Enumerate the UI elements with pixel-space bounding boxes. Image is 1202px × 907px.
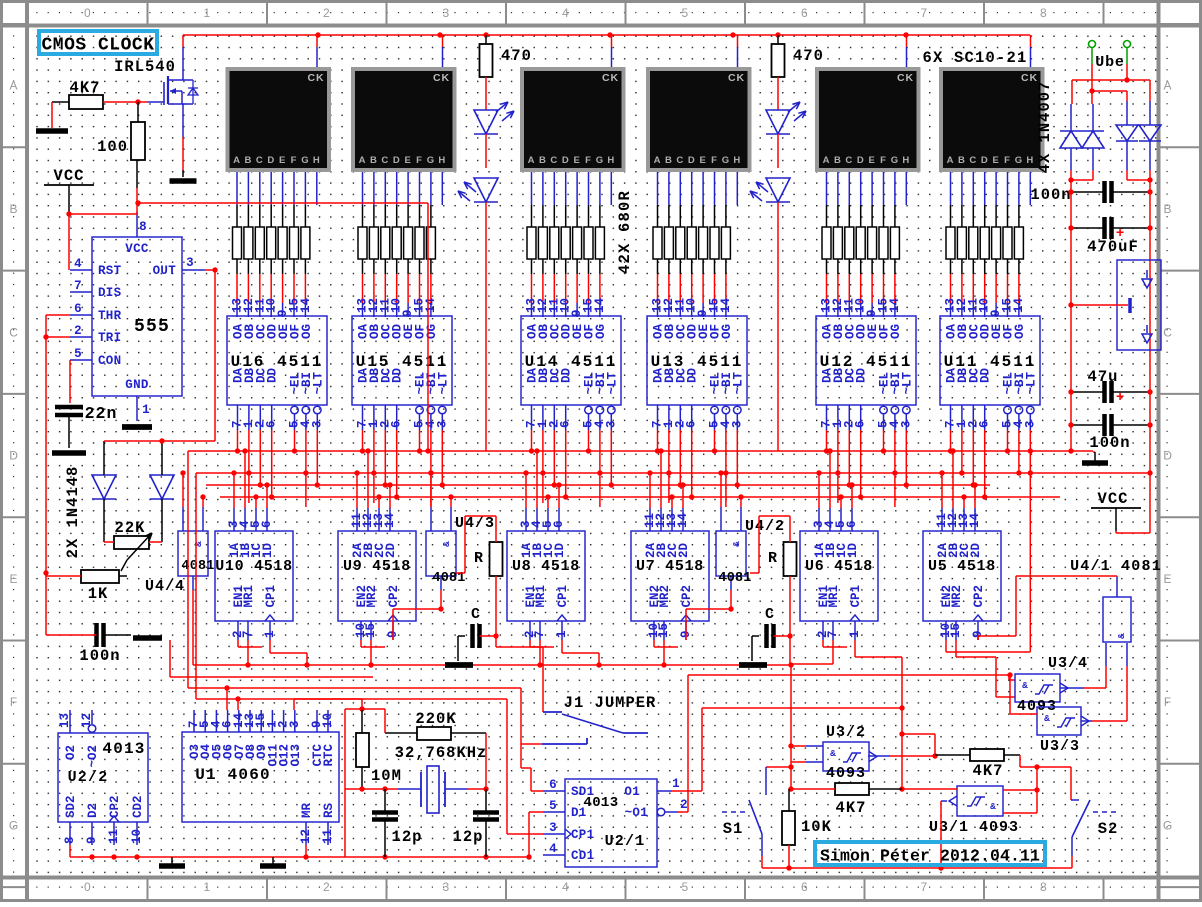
svg-text:C: C bbox=[1163, 325, 1173, 339]
svg-text:14: 14 bbox=[593, 297, 607, 313]
svg-text:CP2: CP2 bbox=[972, 585, 986, 608]
svg-text:CMOS CLOCK: CMOS CLOCK bbox=[41, 36, 154, 56]
svg-text:A: A bbox=[359, 155, 367, 166]
svg-text:4: 4 bbox=[549, 842, 557, 856]
svg-text:A: A bbox=[1164, 79, 1173, 93]
svg-text:H: H bbox=[1026, 155, 1034, 166]
svg-text:DD: DD bbox=[391, 368, 405, 384]
svg-text:C: C bbox=[969, 155, 977, 166]
svg-text:3: 3 bbox=[442, 6, 450, 20]
svg-text:&: & bbox=[1044, 713, 1050, 724]
svg-text:RTC: RTC bbox=[322, 744, 336, 767]
svg-text:4K7: 4K7 bbox=[836, 799, 867, 817]
svg-text:3: 3 bbox=[604, 420, 618, 428]
svg-text:8: 8 bbox=[63, 836, 77, 844]
svg-text:&: & bbox=[1022, 680, 1028, 691]
svg-text:C: C bbox=[256, 155, 264, 166]
svg-text:MR2: MR2 bbox=[950, 585, 964, 608]
svg-text:U7 4518: U7 4518 bbox=[636, 558, 704, 575]
svg-text:C: C bbox=[9, 325, 19, 339]
svg-text:A: A bbox=[10, 79, 19, 93]
svg-text:12: 12 bbox=[80, 713, 94, 728]
svg-text:H: H bbox=[313, 155, 321, 166]
svg-text:6: 6 bbox=[801, 880, 809, 894]
svg-text:42X 680R: 42X 680R bbox=[616, 190, 634, 274]
svg-text:10: 10 bbox=[130, 829, 144, 844]
svg-text:CP1: CP1 bbox=[849, 585, 863, 608]
svg-text:D: D bbox=[393, 155, 401, 166]
svg-text:&: & bbox=[731, 541, 742, 547]
svg-text:G: G bbox=[427, 155, 435, 166]
svg-text:DD: DD bbox=[855, 368, 869, 384]
svg-text:MR1: MR1 bbox=[534, 585, 548, 608]
svg-text:1K: 1K bbox=[88, 585, 109, 603]
svg-text:G: G bbox=[1163, 818, 1173, 832]
svg-text:B: B bbox=[370, 155, 378, 166]
svg-text:A: A bbox=[528, 155, 536, 166]
svg-text:U9 4518: U9 4518 bbox=[343, 558, 411, 575]
svg-text:E: E bbox=[279, 155, 286, 166]
svg-text:CP2: CP2 bbox=[387, 585, 401, 608]
svg-text:CK: CK bbox=[897, 72, 914, 84]
svg-text:F: F bbox=[711, 155, 718, 166]
svg-text:CP1: CP1 bbox=[571, 828, 594, 842]
svg-text:CK: CK bbox=[728, 72, 745, 84]
svg-text:6: 6 bbox=[845, 520, 859, 528]
svg-text:D: D bbox=[1163, 449, 1173, 463]
svg-text:B: B bbox=[10, 202, 19, 216]
svg-text:B: B bbox=[1164, 202, 1173, 216]
svg-text:S2: S2 bbox=[1098, 820, 1119, 838]
svg-text:D: D bbox=[9, 449, 19, 463]
svg-text:6: 6 bbox=[265, 420, 279, 428]
svg-text:1: 1 bbox=[203, 6, 211, 20]
svg-text:+: + bbox=[1116, 388, 1125, 404]
svg-text:OG: OG bbox=[889, 324, 903, 339]
svg-text:3: 3 bbox=[899, 420, 913, 428]
svg-text:U4/2: U4/2 bbox=[745, 518, 785, 535]
svg-text:6X SC10-21: 6X SC10-21 bbox=[922, 49, 1027, 67]
svg-text:~O1: ~O1 bbox=[625, 806, 648, 820]
svg-text:MR1: MR1 bbox=[827, 585, 841, 608]
svg-text:3: 3 bbox=[288, 720, 302, 728]
svg-text:E: E bbox=[10, 572, 19, 586]
svg-text:2D: 2D bbox=[384, 543, 398, 559]
svg-text:U8 4518: U8 4518 bbox=[512, 558, 580, 575]
svg-text:&: & bbox=[990, 801, 996, 812]
svg-text:14: 14 bbox=[383, 512, 397, 528]
svg-text:DIS: DIS bbox=[98, 286, 122, 300]
svg-text:CP2: CP2 bbox=[680, 585, 694, 608]
svg-text:F: F bbox=[291, 155, 298, 166]
svg-text:1D: 1D bbox=[846, 543, 860, 559]
svg-text:O13: O13 bbox=[289, 744, 303, 767]
svg-text:O2: O2 bbox=[64, 745, 78, 760]
svg-text:OG: OG bbox=[720, 324, 734, 339]
svg-text:U3/3: U3/3 bbox=[1040, 738, 1080, 755]
svg-text:12p: 12p bbox=[453, 828, 484, 846]
svg-text:E: E bbox=[699, 155, 706, 166]
svg-text:S1: S1 bbox=[723, 820, 744, 838]
svg-text:2X 1N4148: 2X 1N4148 bbox=[64, 466, 82, 559]
svg-text:D2: D2 bbox=[86, 803, 100, 818]
svg-text:B: B bbox=[665, 155, 673, 166]
svg-text:6: 6 bbox=[559, 420, 573, 428]
svg-text:IRL540: IRL540 bbox=[114, 58, 176, 76]
svg-text:6: 6 bbox=[978, 420, 992, 428]
svg-text:U10 4518: U10 4518 bbox=[215, 558, 293, 575]
svg-text:G: G bbox=[891, 155, 899, 166]
svg-text:H: H bbox=[438, 155, 446, 166]
svg-text:OG: OG bbox=[425, 324, 439, 339]
svg-text:14: 14 bbox=[676, 512, 690, 528]
svg-text:RST: RST bbox=[98, 264, 122, 278]
svg-text:1D: 1D bbox=[261, 543, 275, 559]
svg-text:10K: 10K bbox=[801, 818, 832, 836]
svg-text:5: 5 bbox=[681, 6, 689, 20]
svg-text:14: 14 bbox=[888, 297, 902, 313]
svg-text:2: 2 bbox=[323, 6, 331, 20]
svg-text:&: & bbox=[441, 541, 452, 547]
svg-text:1: 1 bbox=[203, 880, 211, 894]
svg-text:6: 6 bbox=[74, 302, 82, 316]
svg-text:15: 15 bbox=[657, 623, 671, 638]
svg-text:C: C bbox=[550, 155, 558, 166]
svg-text:1: 1 bbox=[672, 777, 680, 791]
svg-text:1: 1 bbox=[555, 630, 569, 638]
svg-text:0: 0 bbox=[84, 6, 92, 20]
svg-text:7: 7 bbox=[920, 6, 928, 20]
svg-text:10M: 10M bbox=[371, 767, 402, 785]
svg-text:E: E bbox=[868, 155, 875, 166]
svg-text:2: 2 bbox=[74, 324, 82, 338]
svg-text:~LT: ~LT bbox=[1024, 372, 1038, 395]
svg-text:F: F bbox=[416, 155, 423, 166]
svg-text:100n: 100n bbox=[1089, 434, 1130, 452]
svg-text:CK: CK bbox=[308, 72, 325, 84]
svg-text:A: A bbox=[654, 155, 662, 166]
svg-text:D: D bbox=[857, 155, 865, 166]
svg-text:12: 12 bbox=[299, 829, 313, 844]
svg-text:G: G bbox=[596, 155, 604, 166]
svg-text:3: 3 bbox=[435, 420, 449, 428]
svg-text:A: A bbox=[823, 155, 831, 166]
svg-text:J1 JUMPER: J1 JUMPER bbox=[564, 694, 657, 712]
svg-text:U1 4060: U1 4060 bbox=[195, 766, 271, 784]
svg-text:5: 5 bbox=[681, 880, 689, 894]
svg-text:14: 14 bbox=[1012, 297, 1026, 313]
svg-text:C: C bbox=[381, 155, 389, 166]
svg-text:~LT: ~LT bbox=[900, 372, 914, 395]
svg-text:U6 4518: U6 4518 bbox=[805, 558, 873, 575]
svg-text:C: C bbox=[676, 155, 684, 166]
svg-text:SD1: SD1 bbox=[571, 785, 594, 799]
svg-text:470uF: 470uF bbox=[1087, 238, 1139, 256]
svg-text:3: 3 bbox=[730, 420, 744, 428]
svg-text:CK: CK bbox=[433, 72, 450, 84]
svg-text:100: 100 bbox=[97, 138, 128, 156]
svg-text:100n: 100n bbox=[1030, 186, 1071, 204]
svg-text:MR2: MR2 bbox=[365, 585, 379, 608]
svg-text:D: D bbox=[562, 155, 570, 166]
svg-text:U4/4: U4/4 bbox=[145, 578, 185, 595]
svg-text:CD2: CD2 bbox=[131, 795, 145, 818]
svg-text:2: 2 bbox=[680, 798, 688, 812]
svg-text:A: A bbox=[947, 155, 955, 166]
svg-text:1: 1 bbox=[142, 403, 150, 417]
svg-text:3: 3 bbox=[549, 821, 557, 835]
svg-text:14: 14 bbox=[968, 512, 982, 528]
svg-text:Ube: Ube bbox=[1095, 54, 1124, 71]
svg-text:22K: 22K bbox=[115, 519, 146, 537]
svg-text:U4/1 4081: U4/1 4081 bbox=[1070, 558, 1162, 575]
svg-text:2: 2 bbox=[323, 880, 331, 894]
svg-text:8: 8 bbox=[1040, 6, 1048, 20]
svg-text:CON: CON bbox=[98, 354, 121, 368]
svg-text:OG: OG bbox=[594, 324, 608, 339]
svg-text:U4/3: U4/3 bbox=[455, 515, 495, 532]
svg-text:F: F bbox=[10, 695, 18, 709]
svg-text:3: 3 bbox=[310, 420, 324, 428]
svg-text:U3/2: U3/2 bbox=[826, 724, 866, 741]
svg-text:F: F bbox=[880, 155, 887, 166]
svg-text:Simon Péter 2012.04.11: Simon Péter 2012.04.11 bbox=[820, 847, 1040, 866]
svg-text:&: & bbox=[1116, 633, 1127, 639]
svg-text:VCC: VCC bbox=[125, 242, 149, 256]
svg-text:H: H bbox=[607, 155, 615, 166]
svg-text:D: D bbox=[981, 155, 989, 166]
svg-text:&: & bbox=[830, 748, 836, 759]
svg-text:555: 555 bbox=[134, 317, 170, 337]
svg-text:E: E bbox=[992, 155, 999, 166]
svg-text:12p: 12p bbox=[392, 828, 423, 846]
svg-text:4: 4 bbox=[562, 6, 570, 20]
svg-text:&: & bbox=[193, 541, 204, 547]
svg-text:5: 5 bbox=[549, 799, 557, 813]
svg-text:R: R bbox=[768, 550, 778, 567]
svg-text:E: E bbox=[1164, 572, 1173, 586]
svg-text:32,768KHz: 32,768KHz bbox=[395, 744, 488, 762]
svg-text:DD: DD bbox=[686, 368, 700, 384]
svg-text:THR: THR bbox=[98, 309, 122, 323]
svg-text:8: 8 bbox=[139, 220, 147, 234]
svg-text:U5 4518: U5 4518 bbox=[928, 558, 996, 575]
svg-text:MR: MR bbox=[300, 802, 314, 818]
svg-text:CP2: CP2 bbox=[108, 795, 122, 818]
svg-text:4: 4 bbox=[74, 257, 82, 271]
svg-text:14: 14 bbox=[424, 297, 438, 313]
svg-text:7: 7 bbox=[533, 630, 547, 638]
svg-text:11: 11 bbox=[321, 829, 335, 844]
svg-text:9: 9 bbox=[85, 836, 99, 844]
svg-text:O1: O1 bbox=[624, 785, 640, 799]
svg-text:470: 470 bbox=[501, 47, 532, 65]
svg-text:H: H bbox=[902, 155, 910, 166]
svg-text:15: 15 bbox=[949, 623, 963, 638]
svg-text:6: 6 bbox=[390, 420, 404, 428]
svg-text:~LT: ~LT bbox=[605, 372, 619, 395]
svg-text:15: 15 bbox=[364, 623, 378, 638]
svg-text:2D: 2D bbox=[969, 543, 983, 559]
svg-text:C: C bbox=[765, 606, 775, 623]
svg-text:7: 7 bbox=[241, 630, 255, 638]
svg-text:D: D bbox=[688, 155, 696, 166]
svg-text:5: 5 bbox=[74, 347, 82, 361]
svg-text:10: 10 bbox=[321, 713, 335, 728]
svg-text:D1: D1 bbox=[571, 806, 587, 820]
svg-text:C: C bbox=[471, 606, 481, 623]
svg-text:U3/1 4093: U3/1 4093 bbox=[929, 819, 1019, 836]
svg-text:4X 1N4007: 4X 1N4007 bbox=[1036, 81, 1054, 174]
svg-text:TRI: TRI bbox=[98, 331, 121, 345]
svg-text:SD2: SD2 bbox=[64, 795, 78, 818]
svg-text:D: D bbox=[267, 155, 275, 166]
svg-text:1: 1 bbox=[848, 630, 862, 638]
svg-text:CP1: CP1 bbox=[556, 585, 570, 608]
svg-text:B: B bbox=[539, 155, 547, 166]
svg-text:470: 470 bbox=[793, 47, 824, 65]
svg-text:U3/4: U3/4 bbox=[1048, 655, 1088, 672]
svg-text:6: 6 bbox=[552, 520, 566, 528]
svg-text:3: 3 bbox=[186, 256, 194, 270]
svg-text:DD: DD bbox=[560, 368, 574, 384]
svg-text:G: G bbox=[9, 818, 19, 832]
svg-text:DD: DD bbox=[979, 368, 993, 384]
svg-text:F: F bbox=[1164, 695, 1172, 709]
svg-text:U2/1: U2/1 bbox=[605, 833, 646, 850]
svg-text:H: H bbox=[733, 155, 741, 166]
svg-text:3: 3 bbox=[1023, 420, 1037, 428]
svg-text:OG: OG bbox=[300, 324, 314, 339]
svg-text:MR2: MR2 bbox=[658, 585, 672, 608]
svg-text:F: F bbox=[585, 155, 592, 166]
svg-text:14: 14 bbox=[299, 297, 313, 313]
svg-text:C: C bbox=[845, 155, 853, 166]
svg-text:MR1: MR1 bbox=[242, 585, 256, 608]
svg-text:11: 11 bbox=[107, 829, 121, 844]
svg-text:6: 6 bbox=[854, 420, 868, 428]
svg-text:2D: 2D bbox=[677, 543, 691, 559]
svg-text:RS: RS bbox=[322, 802, 336, 818]
svg-text:DD: DD bbox=[266, 368, 280, 384]
svg-text:F: F bbox=[1004, 155, 1011, 166]
svg-text:G: G bbox=[1015, 155, 1023, 166]
svg-text:22n: 22n bbox=[85, 404, 118, 423]
svg-text:3: 3 bbox=[442, 880, 450, 894]
svg-text:7: 7 bbox=[74, 279, 82, 293]
svg-text:6: 6 bbox=[685, 420, 699, 428]
svg-text:VCC: VCC bbox=[1098, 490, 1129, 508]
svg-text:~LT: ~LT bbox=[311, 372, 325, 395]
svg-text:8: 8 bbox=[1040, 880, 1048, 894]
svg-text:GND: GND bbox=[125, 378, 149, 392]
svg-text:4: 4 bbox=[562, 880, 570, 894]
svg-text:1: 1 bbox=[263, 630, 277, 638]
svg-text:6: 6 bbox=[549, 778, 557, 792]
svg-text:4K7: 4K7 bbox=[973, 762, 1004, 780]
svg-text:4013: 4013 bbox=[102, 740, 145, 758]
svg-text:A: A bbox=[233, 155, 241, 166]
svg-text:B: B bbox=[958, 155, 966, 166]
svg-text:OUT: OUT bbox=[153, 264, 177, 278]
svg-text:R: R bbox=[474, 550, 484, 567]
svg-text:4081: 4081 bbox=[181, 559, 214, 574]
svg-text:G: G bbox=[722, 155, 730, 166]
svg-text:B: B bbox=[834, 155, 842, 166]
svg-text:U2/2: U2/2 bbox=[68, 769, 109, 786]
svg-text:E: E bbox=[404, 155, 411, 166]
svg-text:6: 6 bbox=[801, 6, 809, 20]
svg-text:CD1: CD1 bbox=[571, 849, 594, 863]
svg-text:~O2: ~O2 bbox=[86, 745, 100, 768]
svg-text:CP1: CP1 bbox=[264, 585, 278, 608]
svg-text:0: 0 bbox=[84, 880, 92, 894]
svg-text:100n: 100n bbox=[79, 647, 120, 665]
svg-text:7: 7 bbox=[920, 880, 928, 894]
svg-text:7: 7 bbox=[826, 630, 840, 638]
svg-text:B: B bbox=[245, 155, 253, 166]
svg-text:220K: 220K bbox=[415, 710, 456, 728]
svg-text:~LT: ~LT bbox=[436, 372, 450, 395]
svg-text:13: 13 bbox=[58, 713, 72, 728]
svg-text:CK: CK bbox=[602, 72, 619, 84]
svg-text:6: 6 bbox=[260, 520, 274, 528]
svg-text:OG: OG bbox=[1013, 324, 1027, 339]
svg-text:1D: 1D bbox=[553, 543, 567, 559]
svg-text:4081: 4081 bbox=[718, 571, 751, 586]
svg-text:~LT: ~LT bbox=[731, 372, 745, 395]
svg-text:E: E bbox=[573, 155, 580, 166]
svg-text:G: G bbox=[301, 155, 309, 166]
svg-text:4093: 4093 bbox=[826, 765, 866, 782]
svg-text:14: 14 bbox=[719, 297, 733, 313]
svg-text:VCC: VCC bbox=[54, 167, 85, 185]
